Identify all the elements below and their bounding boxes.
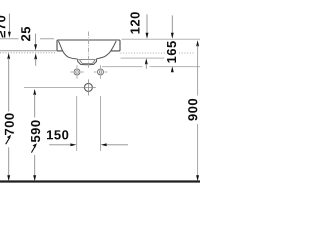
dimension 590 line — [33, 89, 36, 181]
drain hole circle — [81, 79, 95, 95]
dimension 165 arrows — [171, 15, 174, 72]
700 direction arrow — [6, 135, 12, 144]
drain boss outer — [78, 59, 97, 65]
rim reference line right — [122, 38, 201, 40]
dimension >=70 arrow — [8, 14, 11, 38]
label 590 — [31, 120, 40, 142]
label 25 — [21, 27, 30, 41]
label >=70 — [0, 16, 5, 38]
label 165 — [167, 41, 176, 63]
faucet level line L1 right — [121, 57, 165, 59]
washbasin bowl underside — [58, 41, 116, 59]
dimension 120 arrows — [145, 14, 149, 69]
drain leader line — [24, 86, 81, 88]
label 900 — [188, 99, 197, 121]
dimension 900 line — [196, 40, 199, 181]
washbasin rim band — [57, 40, 120, 51]
centerline — [88, 32, 90, 68]
label 150 — [47, 130, 68, 139]
drain boss inner — [78, 60, 95, 64]
hole extension line right — [99, 96, 101, 151]
dotted overflow line right — [121, 52, 195, 54]
hole extension line left — [76, 96, 78, 151]
right fixing hole — [94, 65, 108, 79]
dimension 150 — [49, 143, 128, 146]
label 700 — [5, 113, 14, 135]
upper shelf line left — [0, 50, 56, 52]
590 direction arrow — [31, 143, 37, 152]
dimension 700 line — [7, 53, 10, 181]
dimension 25 arrows — [34, 34, 37, 66]
left fixing hole — [70, 65, 84, 79]
floor line — [0, 180, 200, 182]
rim reference line left — [0, 38, 54, 40]
faucet level line L2 right — [102, 66, 200, 68]
dotted overflow line left — [0, 52, 56, 54]
label 120 — [130, 12, 139, 33]
